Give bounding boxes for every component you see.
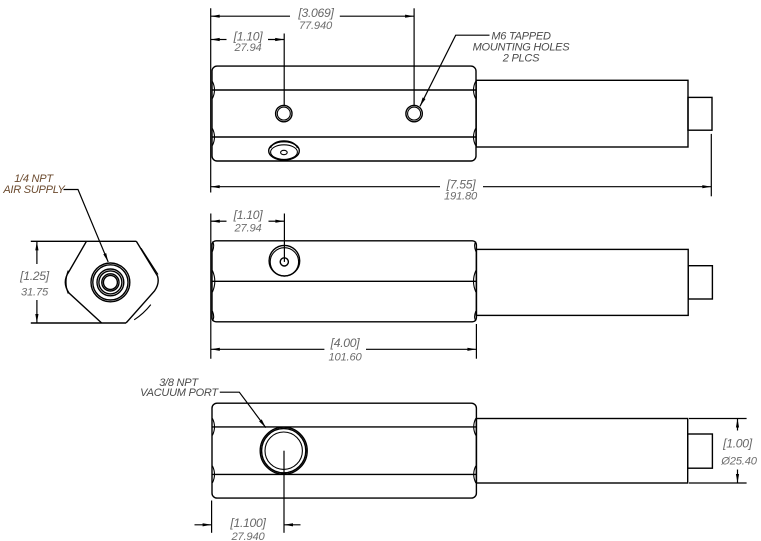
dimension 1.25 / 31.75 (36, 241, 38, 264)
end stub (bottom view) (688, 434, 713, 468)
cylinder section (top view) (476, 80, 688, 147)
svg-text:27.94: 27.94 (234, 223, 262, 235)
extension line left (shared by 3.069 / 1.10 / 7.55) (210, 8, 212, 192)
hex body outline (bottom view) (212, 403, 476, 498)
dimension 1.10 / 27.94 (top view) (211, 39, 227, 41)
port center line (1.100) (283, 451, 285, 533)
svg-text:[4.00]: [4.00] (330, 336, 361, 350)
air supply leader (64, 190, 109, 263)
M6 tapped hole 1 (276, 105, 292, 121)
svg-text:2 PLCS: 2 PLCS (502, 53, 540, 65)
extension line left (middle view dims) (210, 214, 212, 359)
svg-text:[1.10]: [1.10] (233, 208, 264, 222)
air supply port circle (middle view) (269, 245, 300, 276)
hex facet line lower (212, 136, 476, 138)
dimension 1.10 / 27.94 (middle view) (211, 220, 227, 222)
chamfer arc right bottom corner (475, 311, 476, 321)
extension line right stub (7.55) (710, 134, 712, 196)
svg-text:[1.25]: [1.25] (19, 269, 50, 283)
chamfer arc right upper (474, 82, 476, 99)
chamfer arc right upper (bottom view) (474, 418, 476, 435)
chamfer arc left lower (212, 129, 214, 146)
hexagon outline (65, 241, 158, 323)
hex facet line upper (212, 89, 476, 91)
extension line to hole 2 center (3.069) (413, 8, 415, 105)
svg-text:31.75: 31.75 (21, 287, 49, 299)
M6 tapped hole 2 (406, 105, 422, 121)
chamfer arc right lower (bottom view) (474, 466, 476, 483)
chamfer arc near left vertex (66, 271, 68, 294)
air supply port inner hole (280, 258, 288, 266)
extension line hex right (4.00) (475, 324, 477, 359)
hex facet line lower (bottom view) (212, 473, 476, 475)
cylinder section (middle view) (476, 249, 688, 315)
svg-text:[1.100]: [1.100] (229, 516, 266, 530)
extension line to port center (1.10 middle) (283, 214, 285, 262)
vacuum port leader (220, 392, 266, 427)
top flat with extension (31, 240, 137, 242)
dimension 1.100 / 27.940 (195, 524, 212, 526)
svg-text:VACUUM PORT: VACUUM PORT (140, 387, 219, 399)
svg-text:77.940: 77.940 (299, 20, 333, 32)
air port ellipse on lower facet (269, 142, 300, 160)
chamfer arc left bottom corner (212, 311, 213, 321)
chamfer arc left lower (bottom view) (212, 466, 214, 483)
hex facet line upper (bottom view) (212, 426, 476, 428)
bottom flat with extension (31, 322, 126, 324)
chamfer arc left upper (bottom view) (212, 418, 214, 435)
dimension 4.00 / 101.60 (211, 348, 325, 350)
chamfer arc left center (212, 271, 214, 293)
hex body outline (middle view) (212, 241, 476, 322)
svg-text:191.80: 191.80 (444, 191, 478, 203)
svg-text:[1.00]: [1.00] (722, 437, 753, 451)
extension lines (1.00 dia) (689, 418, 747, 420)
air supply port thread circles (91, 263, 130, 302)
end stub (top view) (688, 97, 712, 130)
svg-text:[7.55]: [7.55] (446, 177, 477, 191)
cylinder section (bottom view) (476, 419, 687, 484)
M6 note leader (420, 35, 490, 106)
extension line to hole 1 center (1.10) (283, 34, 285, 106)
chamfer arc right center (474, 271, 476, 293)
svg-text:AIR SUPPLY: AIR SUPPLY (2, 184, 65, 196)
hex body outline (top view) (212, 66, 476, 161)
air port small hole (281, 150, 288, 154)
svg-text:27.940: 27.940 (230, 531, 265, 541)
dimension 1.00 / 25.40 (737, 419, 739, 431)
svg-text:101.60: 101.60 (328, 352, 362, 364)
end stub (middle view) (688, 266, 712, 299)
hex center edge line (212, 280, 476, 282)
extension line left (1.100) (211, 501, 213, 533)
dimension 7.55 / 191.80 (211, 186, 440, 188)
svg-text:27.94: 27.94 (234, 42, 262, 54)
vacuum port circles (260, 427, 307, 474)
chamfer arc left upper (212, 82, 214, 99)
svg-text:Ø25.40: Ø25.40 (720, 455, 757, 467)
svg-text:[3.069]: [3.069] (297, 6, 334, 20)
chamfer arc near bottom-right corner (134, 305, 151, 320)
chamfer arc right lower (474, 129, 476, 146)
chamfer arc left top corner (212, 242, 213, 252)
chamfer arc right top corner (475, 242, 476, 252)
dimension 3.069 / 77.940 (211, 15, 290, 17)
chamfer edge line top-right (141, 248, 158, 274)
